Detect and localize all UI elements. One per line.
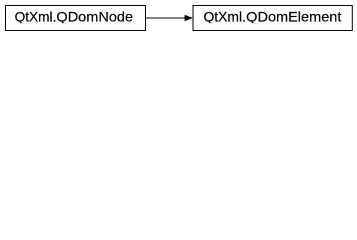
svg-text:QtXml.: QtXml. [204, 9, 246, 25]
svg-text:QDomNode: QDomNode [56, 9, 133, 25]
Q tail trim left box [7, 23, 143, 25]
arrowhead [185, 15, 193, 21]
inheritance arrow wire [146, 17, 186, 19]
svg-text:QtXml.: QtXml. [15, 9, 57, 25]
class box QtXml.QDomElement [193, 6, 352, 31]
svg-text:QDomElement: QDomElement [246, 9, 341, 25]
background [0, 0, 357, 36]
Q tail trim right box [196, 23, 349, 25]
class box QtXml.QDomNode [6, 6, 146, 31]
